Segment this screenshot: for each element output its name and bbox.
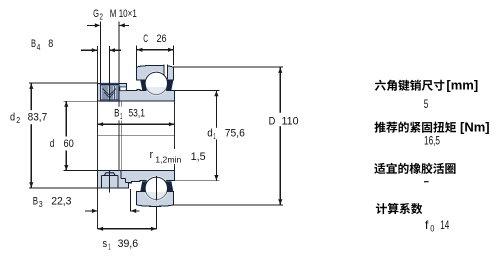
svg-text:3: 3 bbox=[39, 199, 43, 209]
svg-text:1: 1 bbox=[120, 111, 123, 121]
svg-text:B: B bbox=[33, 196, 38, 208]
svg-text:110: 110 bbox=[282, 115, 299, 127]
svg-text:d: d bbox=[207, 128, 213, 140]
svg-text:d: d bbox=[50, 138, 55, 150]
svg-text:1,5: 1,5 bbox=[191, 151, 206, 163]
svg-text:[mm]: [mm] bbox=[446, 78, 478, 93]
svg-text:2: 2 bbox=[99, 11, 103, 21]
svg-text:G: G bbox=[93, 8, 99, 20]
svg-text:26: 26 bbox=[157, 33, 167, 45]
svg-text:0: 0 bbox=[430, 223, 434, 233]
svg-text:B: B bbox=[114, 108, 119, 120]
svg-text:75,6: 75,6 bbox=[225, 128, 245, 140]
svg-text:M 10×1: M 10×1 bbox=[110, 8, 137, 20]
svg-text:[Nm]: [Nm] bbox=[460, 120, 490, 135]
svg-text:D: D bbox=[269, 115, 276, 127]
svg-text:C: C bbox=[143, 33, 148, 45]
svg-text:39,6: 39,6 bbox=[118, 238, 139, 250]
svg-text:16,5: 16,5 bbox=[424, 133, 440, 147]
svg-text:4: 4 bbox=[37, 42, 41, 52]
svg-text:53,1: 53,1 bbox=[129, 108, 145, 120]
svg-text:B: B bbox=[31, 38, 36, 50]
svg-text:1: 1 bbox=[213, 131, 216, 141]
svg-text:8: 8 bbox=[48, 38, 53, 50]
svg-text:r: r bbox=[150, 149, 154, 161]
svg-text:83,7: 83,7 bbox=[28, 112, 48, 124]
svg-text:d: d bbox=[10, 112, 15, 124]
svg-text:5: 5 bbox=[424, 97, 429, 111]
svg-text:22,3: 22,3 bbox=[51, 196, 71, 208]
svg-text:14: 14 bbox=[440, 218, 449, 232]
svg-text:60: 60 bbox=[64, 138, 74, 150]
svg-text:1,2min: 1,2min bbox=[155, 154, 181, 164]
svg-text:1: 1 bbox=[108, 242, 111, 252]
svg-text:s: s bbox=[103, 238, 108, 250]
svg-text:2: 2 bbox=[16, 115, 20, 125]
